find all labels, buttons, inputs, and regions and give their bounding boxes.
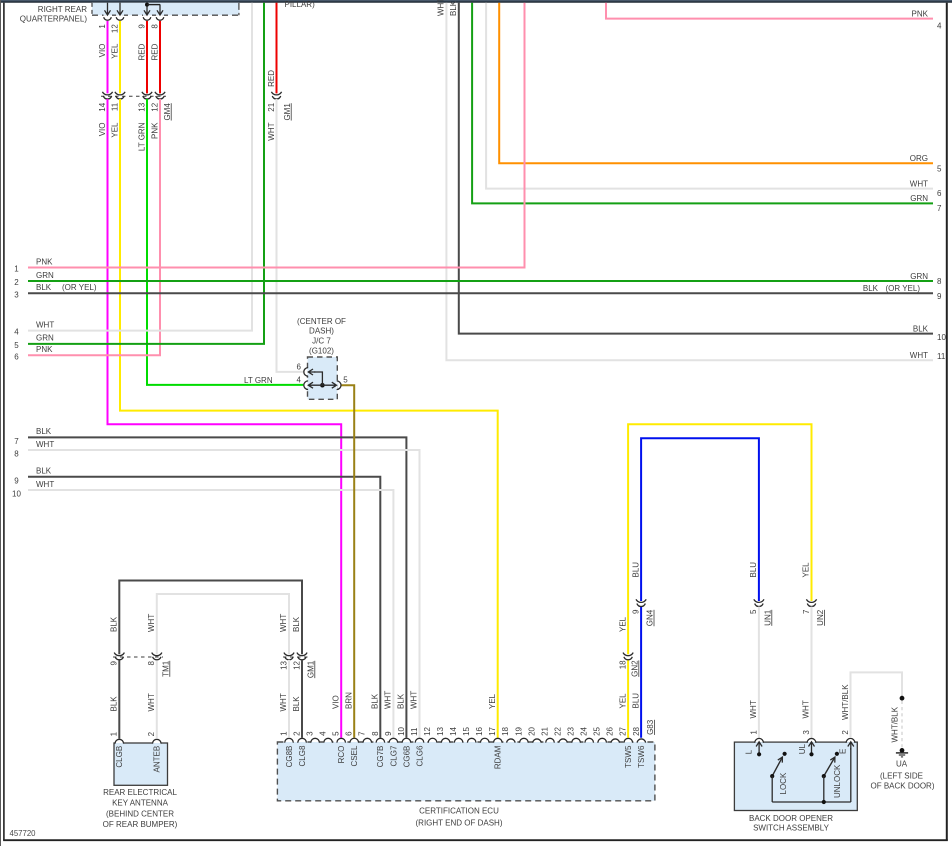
svg-text:WHT: WHT [267,122,276,140]
left edge wire 4 label [14,320,54,336]
svg-text:BLK: BLK [36,467,52,476]
wire RED from top pillar to GM1-21 [276,3,278,94]
svg-text:3: 3 [14,290,19,299]
svg-text:1: 1 [279,731,288,736]
svg-text:RED: RED [150,43,159,60]
ECU pin 4 bump and number [319,731,333,743]
svg-text:REAR ELECTRICAL: REAR ELECTRICAL [103,788,177,797]
svg-text:7: 7 [358,731,367,736]
connector TM1 pin 8 [152,653,162,656]
svg-text:10: 10 [937,333,946,342]
svg-text:8: 8 [371,731,380,736]
switch terminal L arrow [745,742,762,757]
svg-text:VIO: VIO [98,123,107,137]
svg-text:BLK: BLK [863,284,879,293]
svg-text:RIGHT REAR: RIGHT REAR [38,5,87,14]
connector GM1 dashed link [283,656,308,658]
svg-text:2: 2 [292,731,301,736]
svg-text:1: 1 [98,24,107,29]
component box REAR ELECTRICAL KEY ANTENNA [114,743,168,785]
svg-text:(OR YEL): (OR YEL) [62,283,97,292]
svg-text:CG8B: CG8B [285,746,294,768]
svg-text:GRN: GRN [36,271,54,280]
ECU pin 14 bump and number [449,726,463,743]
right edge wire 6 label [910,179,942,198]
wire BLK GM1-12 to ECU pin 2 CLG8 [301,660,303,738]
svg-text:DASH): DASH) [309,327,334,336]
svg-text:YEL: YEL [618,616,627,632]
wire VIO quarterpanel-1 to GM4-14 [107,21,109,94]
svg-text:WHT: WHT [36,440,54,449]
svg-text:5: 5 [937,165,942,174]
wire GRN from top to right edge 7 [472,3,933,204]
ECU pin 10 bump and number [397,726,412,767]
svg-text:YEL: YEL [488,693,497,709]
svg-text:YEL: YEL [110,43,119,59]
svg-text:WHT: WHT [279,614,288,632]
quarterpanel pin bump 9 [143,14,151,15]
svg-text:8: 8 [150,24,159,29]
svg-text:1: 1 [749,730,758,735]
right edge wire 11 label [910,351,946,361]
right edge wire 8 label [910,272,942,286]
wire WHT left edge 10 to ECU pin 9 [28,490,393,738]
svg-text:14: 14 [449,726,458,735]
svg-text:BLK: BLK [913,324,929,333]
svg-text:WHT/BLK: WHT/BLK [891,706,900,742]
connector TM1 dashed link [113,656,163,658]
svg-text:19: 19 [514,726,523,735]
right edge wire 10 label [913,324,947,341]
svg-text:4: 4 [14,328,19,337]
svg-text:WHT: WHT [36,320,54,329]
connector TM1 pin 9 [114,653,124,656]
svg-text:GRN: GRN [910,194,928,203]
ECU pin 23 bump and number [567,726,581,743]
component box RIGHT REAR QUARTERPANEL (cut off at top) [92,3,240,16]
svg-text:BLK: BLK [371,693,380,709]
svg-text:12: 12 [110,24,119,33]
switch pin 2 bump [841,730,855,744]
ECU pin 18 bump and number [501,726,515,743]
ground dashed wire segment [901,701,903,748]
svg-text:PNK: PNK [150,122,159,139]
wire BLK from top to right edge 10 [459,3,933,334]
svg-text:5: 5 [749,609,758,614]
switch terminal E arrow [839,742,854,802]
svg-text:26: 26 [606,726,615,735]
right page border [946,3,948,841]
top page bar [0,0,952,2]
wire GRN from top to left edge 5 [28,3,264,344]
svg-text:ANTEB: ANTEB [153,746,162,773]
svg-text:WHT: WHT [749,700,758,718]
svg-text:GN4: GN4 [646,609,655,626]
svg-text:WHT: WHT [437,0,446,16]
arrow into quarterpanel pin 8 [157,4,163,15]
J/C 7 pin 5 bump [337,381,338,389]
svg-text:28: 28 [632,726,641,735]
svg-text:10: 10 [12,490,21,499]
svg-text:GM1: GM1 [283,103,292,121]
svg-text:WHT: WHT [279,693,288,711]
right edge wire 9 label [863,284,942,301]
wire WHT GM1-21 to J/C 7 pin 6 [277,99,304,372]
wire WHT left edge 8 to ECU pin 11 [28,450,420,738]
svg-text:6: 6 [14,352,19,361]
svg-text:CSEL: CSEL [350,745,359,766]
svg-text:VIO: VIO [98,44,107,58]
ECU pin 25 bump and number [593,726,607,743]
svg-text:11: 11 [110,102,119,111]
svg-text:GRN: GRN [36,334,54,343]
wire VIO GM4-14 to ECU pin 5 RCO [108,99,342,738]
svg-text:SWITCH ASSEMBLY: SWITCH ASSEMBLY [753,824,830,833]
ECU pin 1 bump and number [279,731,294,767]
svg-text:11: 11 [410,727,419,736]
connector GM1 pin 21 [271,92,281,95]
svg-text:9: 9 [631,609,640,614]
left edge wire 6 label [14,345,53,361]
svg-text:2: 2 [14,278,19,287]
svg-text:12: 12 [292,660,301,669]
svg-text:OF REAR BUMPER): OF REAR BUMPER) [103,820,178,829]
wire LT GRN GM4-13 to J/C 7 pin 4 [147,99,303,385]
svg-text:CG7B: CG7B [376,746,385,768]
connector GN2 pin 18 [623,653,633,656]
connector GM4 pin 13 [142,92,152,95]
component box BACK DOOR OPENER SWITCH ASSEMBLY [734,742,857,810]
svg-text:9: 9 [384,731,393,736]
switch caption [749,814,833,833]
svg-text:J/C 7: J/C 7 [312,337,331,346]
svg-text:CLG6: CLG6 [415,745,424,766]
right edge wire 7 label [910,194,942,213]
wire PNK from top to left edge 1 [28,3,525,268]
left edge wire 5 label [14,334,54,350]
ECU pin 5 bump and number [332,731,347,763]
svg-text:6: 6 [297,362,302,371]
quarterpanel pin bump 8 [156,14,164,15]
svg-text:5: 5 [343,376,348,385]
svg-text:13: 13 [137,102,146,111]
switch LOCK contact [770,752,788,802]
J/C 7 internal junction [320,383,325,388]
wire WHT GM1-13 to ECU pin 1 CG8B [288,660,290,738]
switch UNLOCK contact [822,752,842,802]
wire BLK left edge 9 to ECU pin 8 [28,477,380,738]
ECU pin 26 bump and number [606,726,620,743]
ECU pin 20 bump and number [527,726,541,743]
svg-text:WHT: WHT [36,480,54,489]
wire PNK GM4-12 to left edge 6 [28,99,160,355]
svg-text:RCO: RCO [337,746,346,764]
right edge wire 5 label [910,154,942,174]
svg-text:BLK: BLK [449,0,458,16]
J/C 7 pin 6 bump [307,368,308,376]
ECU pin 22 bump and number [553,726,567,743]
wire WHT UN1-5 to switch pin 1 [758,607,760,738]
svg-text:BLU: BLU [631,562,640,578]
ECU pin 24 bump and number [580,726,594,743]
svg-text:CG6B: CG6B [402,746,411,768]
svg-text:UN2: UN2 [816,609,825,626]
svg-text:12: 12 [423,726,432,735]
svg-text:25: 25 [593,726,602,735]
svg-text:1: 1 [14,265,19,274]
svg-text:UN1: UN1 [763,609,772,626]
quarterpanel pin bump 1 [104,14,112,15]
ECU pin 27 bump and number [619,726,634,767]
svg-text:457720: 457720 [10,829,37,838]
left edge wire 7 label [14,427,52,446]
wire BLK TM1-9 up and over to GM1-12 [119,581,302,655]
svg-text:GN2: GN2 [630,660,639,677]
ground wire junction dot lower [900,748,905,753]
ECU pin 16 bump and number [475,726,489,743]
svg-text:GM4: GM4 [163,103,172,121]
connector GM1 pin 12 [297,653,307,656]
wire WHT from top to right edge 6 [486,3,933,189]
svg-text:BLK: BLK [110,616,119,632]
svg-text:G83: G83 [646,719,655,735]
svg-text:LT GRN: LT GRN [137,122,146,151]
svg-text:TSW6: TSW6 [637,745,646,768]
ECU pin 6 bump and number [345,731,360,767]
ECU pin 7 bump and number [358,731,372,743]
svg-text:CLGB: CLGB [115,746,124,768]
svg-text:(CENTER OF: (CENTER OF [297,317,346,326]
svg-text:WHT: WHT [147,693,156,711]
wire YEL ECU pin 27 TSW5 up to GN2-18 [627,660,629,738]
svg-text:7: 7 [937,204,942,213]
svg-text:(BEHIND CENTER: (BEHIND CENTER [106,809,174,818]
svg-text:PILLAR): PILLAR) [285,0,316,9]
left edge wire 9 label [14,467,52,486]
svg-text:WHT: WHT [384,691,393,709]
svg-text:UA: UA [896,760,908,769]
ECU pin 28 bump and number [632,726,646,767]
svg-text:27: 27 [619,726,628,735]
svg-text:BLK: BLK [397,693,406,709]
svg-text:ORG: ORG [910,154,928,163]
wire WHT antenna pin 2 to TM1-8 [156,660,158,739]
wire YEL GM4-11 to ECU pin 17 RDAM [120,99,498,738]
svg-text:(RIGHT END OF DASH): (RIGHT END OF DASH) [416,818,503,827]
svg-text:GRN: GRN [910,272,928,281]
switch pin 1 bump [749,730,763,744]
svg-text:RED: RED [267,70,276,87]
svg-text:8: 8 [937,277,942,286]
svg-text:LT GRN: LT GRN [244,376,273,385]
svg-text:L: L [745,749,754,754]
svg-text:7: 7 [14,437,19,446]
svg-text:1: 1 [110,731,119,736]
svg-text:(OR YEL): (OR YEL) [885,284,920,293]
svg-text:WHT: WHT [910,351,928,360]
left edge wire 2 label [14,271,54,287]
svg-text:LOCK: LOCK [779,772,788,794]
svg-text:5: 5 [14,341,19,350]
wire BLK left edge 7 to ECU pin 10 [28,437,406,737]
connector GM4 pin 14 [102,92,112,95]
connector UN2 pin 7 [806,599,816,602]
ECU caption [416,807,503,828]
svg-text:(LEFT SIDE: (LEFT SIDE [880,772,923,781]
svg-text:4: 4 [319,731,328,736]
svg-text:BLK: BLK [292,696,301,712]
svg-text:TM1: TM1 [161,660,170,677]
ECU pin 9 bump and number [384,731,399,767]
J/C 7 pin 4 bump [307,381,308,389]
wire PNK from top to right edge 4 [606,3,933,19]
ECU pin 3 bump and number [306,731,320,743]
wire BLK left edge 3 to right edge 9 [28,292,933,294]
quarterpanel pin bump 12 [116,14,124,15]
svg-text:KEY ANTENNA: KEY ANTENNA [112,799,169,808]
svg-text:PNK: PNK [36,257,53,266]
ECU pin 2 bump and number [292,731,307,767]
svg-text:(G102): (G102) [309,347,334,356]
ECU pin 15 bump and number [462,726,476,743]
svg-text:10: 10 [397,726,406,735]
ECU pin 11 bump and number [410,727,425,766]
svg-text:11: 11 [937,352,946,361]
svg-text:2: 2 [841,730,850,735]
right edge wire 4 label [912,9,942,30]
svg-text:BACK DOOR OPENER: BACK DOOR OPENER [749,814,833,823]
svg-text:BLK: BLK [36,427,52,436]
left page border [0,0,2,846]
svg-text:BLU: BLU [631,693,640,709]
junction of red wires in quarterpanel box [145,3,149,7]
wire BLU ECU pin 28 TSW6 up to GN4-9 [640,607,642,738]
svg-text:20: 20 [527,726,536,735]
ECU pin 8 bump and number [371,731,385,767]
left edge wire 1 label [14,257,53,273]
svg-text:GM1: GM1 [306,660,315,678]
wire RED quarterpanel-9 to GM4-13 [146,21,148,94]
ECU pin 17 bump and number [488,726,503,769]
svg-text:RED: RED [137,43,146,60]
connector GN4 pin 9 [636,599,646,602]
svg-text:23: 23 [567,726,576,735]
svg-text:7: 7 [802,609,811,614]
ground label UA (LEFT SIDE OF BACK DOOR) [870,760,934,791]
svg-text:YEL: YEL [618,693,627,709]
svg-text:3: 3 [802,730,811,735]
switch terminal UL arrow [798,742,815,757]
svg-text:CLG8: CLG8 [298,745,307,766]
switch pin 3 bump [802,730,816,744]
left edge wire 10 label [12,480,54,499]
antenna pin 1 bump [110,731,125,767]
arrow into quarterpanel pin 1 [105,3,111,15]
ground symbol UA [896,753,908,757]
svg-text:CLG7: CLG7 [389,745,398,766]
svg-text:16: 16 [475,726,484,735]
svg-text:13: 13 [436,726,445,735]
svg-text:BRN: BRN [344,692,353,709]
svg-text:8: 8 [147,660,156,665]
connector GM4 pin 12 [155,92,165,95]
svg-text:9: 9 [110,660,119,665]
svg-text:9: 9 [137,24,146,29]
svg-text:9: 9 [14,476,19,485]
svg-text:WHT: WHT [410,691,419,709]
left edge wire 8 label [14,440,54,459]
svg-text:18: 18 [501,726,510,735]
wire WHT/BLK switch pin 2 to ground UA [851,672,903,738]
arrow into quarterpanel pin 9 [144,4,150,15]
ECU pin 12 bump and number [423,726,437,743]
svg-text:15: 15 [462,726,471,735]
wire GRN left edge 2 to right edge 8 [28,280,933,282]
svg-text:18: 18 [618,660,627,669]
svg-text:BLU: BLU [749,562,758,578]
wire WHT from top to right edge 11 [446,3,933,361]
bottom page border [3,839,948,841]
svg-text:WHT: WHT [910,179,928,188]
svg-text:E: E [839,749,848,754]
svg-text:YEL: YEL [110,122,119,138]
ECU pin 13 bump and number [436,726,450,743]
svg-text:UNLOCK: UNLOCK [833,764,842,798]
wire WHT UN2-7 to switch pin 3 [811,607,813,738]
svg-text:OF BACK DOOR): OF BACK DOOR) [870,782,934,791]
wire YEL quarterpanel-12 to GM4-11 [119,21,121,94]
svg-text:5: 5 [332,731,341,736]
svg-text:9: 9 [937,292,942,301]
left edge wire 3 label [14,283,97,299]
svg-text:YEL: YEL [802,562,811,578]
svg-text:21: 21 [267,102,276,111]
wire YEL GN2-18 up over and down to UN2-7 [628,424,811,654]
wire RED quarterpanel-8 to GM4-12 [159,21,161,94]
svg-text:PNK: PNK [36,345,53,354]
connector GM1 pin 13 [284,653,294,656]
connector GM4 pin 11 [115,92,125,95]
J/C 7 caption [297,317,346,356]
svg-text:WHT: WHT [147,614,156,632]
wire BLK antenna pin 1 to TM1-9 [118,660,120,739]
svg-text:6: 6 [937,189,942,198]
svg-text:PNK: PNK [912,9,929,18]
svg-text:24: 24 [580,726,589,735]
switch common bus wire [772,800,851,804]
svg-text:BLK: BLK [292,616,301,632]
wire WHT TM1-8 up and over to GM1-13 [157,594,289,654]
svg-text:BLK: BLK [110,696,119,712]
svg-text:CERTIFICATION ECU: CERTIFICATION ECU [419,807,499,816]
wire BLU GN4-9 up over and down to UN1-5 [641,438,759,601]
wire ORG from top to right edge 5 [499,3,933,164]
component box CERTIFICATION ECU [277,742,655,801]
svg-text:WHT/BLK: WHT/BLK [841,684,850,720]
connector GM4 dashed link [101,95,166,97]
svg-text:UL: UL [798,743,807,754]
svg-text:6: 6 [345,731,354,736]
wire WHT from top to left edge 4 [28,3,252,331]
svg-text:21: 21 [540,726,549,735]
wire BRN J/C 7 pin 5 to ECU pin 6 CSEL [342,385,355,738]
svg-text:BLK: BLK [36,283,52,292]
svg-text:12: 12 [150,102,159,111]
svg-text:4: 4 [937,22,942,31]
svg-text:4: 4 [297,376,302,385]
connector UN1 pin 5 [754,599,764,602]
antenna caption [103,788,178,829]
